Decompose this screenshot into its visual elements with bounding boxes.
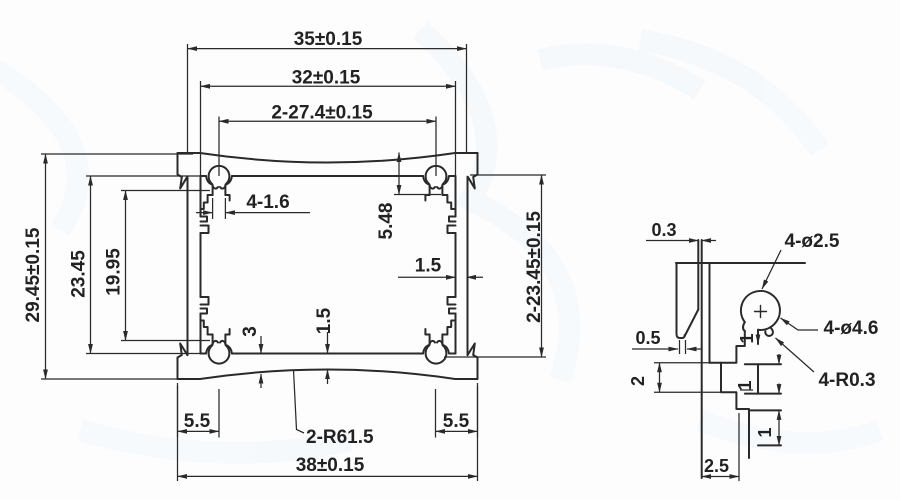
svg-text:0.3: 0.3 — [651, 220, 676, 240]
dim 2-23.45 line — [541, 175, 543, 357]
svg-text:35±0.15: 35±0.15 — [294, 29, 363, 50]
svg-text:1.5: 1.5 — [314, 307, 335, 334]
detail wall inner face — [709, 263, 711, 363]
svg-text:23.45: 23.45 — [69, 250, 90, 298]
dim 29.45 extension lines — [41, 154, 193, 379]
detail boss circle — [741, 291, 780, 330]
detail wall outer face — [701, 240, 703, 478]
svg-text:19.95: 19.95 — [104, 248, 125, 296]
dim 38 line — [178, 475, 478, 477]
top-right lip with barb — [468, 153, 478, 189]
detail web staircase — [710, 331, 745, 363]
detail boss R0.3 hook — [765, 327, 773, 336]
cavity bottom inner surface — [201, 353, 456, 355]
dim 2-23.45 extension lines — [444, 175, 546, 357]
outer bottom edge with R61.5 rise — [178, 370, 478, 380]
svg-text:32±0.15: 32±0.15 — [292, 68, 361, 89]
leader 4-R0.3 — [776, 338, 815, 372]
svg-text:2.5: 2.5 — [704, 456, 729, 476]
svg-text:2-23.45±0.15: 2-23.45±0.15 — [524, 211, 545, 323]
outer top edge with R61.5 dip — [178, 153, 478, 163]
detail boss mouth curl left — [743, 322, 745, 331]
svg-text:1: 1 — [737, 333, 757, 343]
detail web right face — [757, 364, 759, 393]
detail lip ramp — [685, 310, 699, 337]
dim 5.5 left line — [178, 430, 220, 432]
screw boss bottom-right — [423, 321, 455, 364]
dim 2 line — [659, 363, 661, 392]
dim 0.5 lines — [632, 348, 678, 350]
dim 1 right arrows — [778, 354, 780, 364]
dim 32 extension lines — [201, 81, 456, 175]
svg-text:2: 2 — [628, 376, 648, 386]
bottom-left flange with barb — [178, 344, 188, 380]
right wall outer face — [467, 177, 469, 355]
dim 0.3 lines — [646, 240, 698, 242]
svg-text:2-27.4±0.15: 2-27.4±0.15 — [271, 103, 373, 124]
cavity top inner surface — [201, 175, 456, 177]
svg-text:4-ø4.6: 4-ø4.6 — [824, 318, 879, 339]
svg-text:2-R61.5: 2-R61.5 — [306, 427, 374, 448]
dim 5.5 right extension lines — [436, 386, 478, 438]
detail lip outer face — [677, 263, 685, 338]
left wall ribs — [201, 217, 209, 314]
dim 1.5 right wall lines — [398, 276, 456, 278]
svg-text:4-R0.3: 4-R0.3 — [818, 370, 875, 391]
dim 5.5 left extension lines — [178, 386, 220, 438]
bottom-right flange with barb — [468, 344, 478, 380]
detail web tooth — [721, 363, 749, 458]
dim 38 extension lines — [178, 383, 478, 481]
detail top inner surface — [676, 262, 805, 264]
dim 19.95 line — [125, 191, 127, 341]
dim 2 extension lines — [654, 363, 721, 392]
dim 35 extension lines — [188, 44, 467, 152]
dim 29.45 line — [45, 154, 47, 379]
leader 4-phi2.5 — [762, 250, 781, 289]
screw boss bottom-left — [201, 321, 233, 364]
detail lip inner face — [697, 240, 699, 310]
dim 27.4 extension lines — [219, 117, 436, 177]
detail web right steps — [745, 364, 781, 445]
dim 1 mid tick — [740, 389, 753, 391]
svg-text:4-1.6: 4-1.6 — [246, 192, 289, 213]
leader 4-phi4.6 — [781, 318, 819, 330]
detail slot right stem — [757, 330, 759, 344]
dim 0.5 ticks — [680, 340, 686, 354]
dim 1 bottom line — [778, 410, 780, 445]
right wall ribs — [448, 217, 456, 314]
svg-text:29.45±0.15: 29.45±0.15 — [23, 227, 44, 322]
svg-text:38±0.15: 38±0.15 — [296, 455, 365, 476]
svg-text:5.5: 5.5 — [443, 411, 470, 432]
svg-text:1: 1 — [755, 427, 775, 437]
detail boss center cross — [755, 306, 767, 318]
dim 3 lines — [260, 336, 262, 354]
svg-text:4-ø2.5: 4-ø2.5 — [785, 231, 840, 252]
dim 19.95 extension lines — [121, 191, 210, 341]
dim 32 line — [201, 85, 456, 87]
dim 1.5 bottom lines — [327, 332, 329, 354]
svg-text:1.5: 1.5 — [415, 256, 442, 277]
svg-text:0.5: 0.5 — [635, 328, 660, 348]
svg-text:5.5: 5.5 — [184, 411, 211, 432]
right wall inner face — [455, 176, 457, 354]
top-left lip with barb — [178, 153, 188, 189]
dim 23.45 line — [90, 176, 92, 354]
screw boss top-right — [423, 166, 455, 209]
dim 23.45 extension lines — [86, 176, 203, 354]
svg-text:5.48: 5.48 — [376, 203, 397, 240]
screw boss top-left — [201, 166, 233, 209]
dim 5.48 extension — [394, 194, 441, 196]
left wall inner face — [200, 176, 202, 354]
svg-text:3: 3 — [240, 326, 261, 337]
dim 4-1.6 extension lines — [213, 198, 226, 219]
leader 2-R61.5 — [294, 370, 305, 433]
dim 35 line — [188, 48, 467, 50]
svg-text:1: 1 — [735, 380, 755, 390]
dim 2.5 line — [702, 476, 739, 478]
dim 5.48 line — [398, 153, 400, 195]
dim 4-1.6 lines — [196, 212, 213, 214]
left wall outer face — [187, 177, 189, 355]
dim 1 slot arrow — [757, 333, 759, 344]
dim 5.5 right line — [436, 430, 478, 432]
dim 2.5 extension line — [738, 413, 740, 481]
dim 27.4 line — [219, 120, 436, 122]
